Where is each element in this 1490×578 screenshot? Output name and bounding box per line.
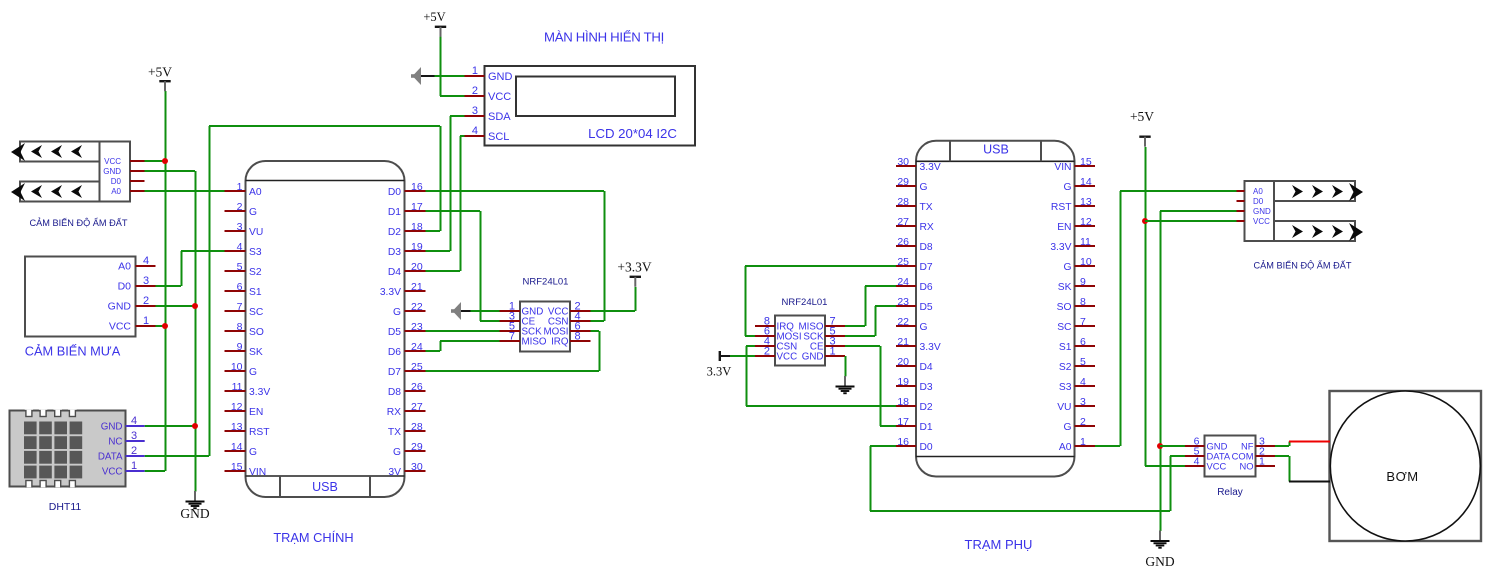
svg-text:S3: S3 bbox=[249, 247, 262, 258]
svg-text:3: 3 bbox=[143, 275, 149, 287]
svg-text:20: 20 bbox=[411, 261, 423, 273]
wire MISO bbox=[440, 340, 500, 342]
pin 1 A0 bbox=[225, 181, 262, 198]
svg-text:27: 27 bbox=[411, 401, 423, 413]
terminal (ground net) bbox=[411, 67, 435, 85]
pin 1 A0 bbox=[1059, 436, 1095, 453]
wire D0 to CSN vertical bbox=[604, 191, 606, 321]
svg-text:S1: S1 bbox=[249, 287, 262, 298]
svg-text:SCL: SCL bbox=[488, 131, 509, 143]
pin 21 3.3V bbox=[896, 336, 941, 353]
svg-text:RST: RST bbox=[1051, 202, 1072, 213]
svg-text:TRẠM PHỤ: TRẠM PHỤ bbox=[965, 537, 1033, 552]
svg-text:NO: NO bbox=[1239, 460, 1253, 471]
wire relay COM bbox=[1275, 455, 1289, 457]
svg-text:VCC: VCC bbox=[777, 352, 798, 363]
pin 21 3.3V bbox=[380, 281, 426, 298]
wire +5V to relay VCC bbox=[1145, 465, 1185, 467]
svg-text:1: 1 bbox=[1080, 436, 1086, 448]
MCU U2 Arduino Nano (TRẠM PHỤ) bbox=[916, 141, 1075, 477]
svg-text:MISO: MISO bbox=[522, 337, 547, 348]
svg-text:24: 24 bbox=[411, 341, 423, 353]
pin 3 VU bbox=[1057, 396, 1095, 413]
svg-text:S1: S1 bbox=[1059, 342, 1072, 353]
svg-text:26: 26 bbox=[411, 381, 423, 393]
wire CSN bbox=[746, 345, 755, 347]
svg-text:9: 9 bbox=[237, 341, 243, 353]
wire DATA to D2 horizontal bbox=[209, 125, 440, 127]
svg-text:4: 4 bbox=[131, 415, 137, 427]
pin 5 S2 bbox=[225, 261, 262, 278]
svg-text:14: 14 bbox=[231, 441, 243, 453]
junction soil VCC / +5V bbox=[162, 158, 168, 164]
svg-text:1: 1 bbox=[1259, 456, 1265, 468]
relay module Relay bbox=[1185, 436, 1275, 477]
terminal (ground net) bbox=[451, 302, 471, 320]
wire relay DATA drop bbox=[1170, 456, 1172, 511]
wire NRF VCC to 3.3V bbox=[730, 355, 755, 357]
wire relay NF bbox=[1275, 445, 1289, 447]
svg-text:3.3V: 3.3V bbox=[707, 365, 732, 379]
svg-text:D8: D8 bbox=[388, 387, 401, 398]
svg-text:17: 17 bbox=[897, 416, 909, 428]
wire CE bbox=[845, 345, 880, 347]
pin 17 D1 bbox=[896, 416, 933, 433]
wire NF to pump (red) bbox=[1289, 441, 1330, 443]
wire DHT DATA bbox=[145, 455, 209, 457]
svg-text:19: 19 bbox=[897, 376, 909, 388]
wire D5 bbox=[875, 305, 896, 307]
wire sensor GND bbox=[1160, 210, 1237, 212]
pin 27 RX bbox=[896, 216, 934, 233]
svg-text:18: 18 bbox=[897, 396, 909, 408]
pin 10 G bbox=[225, 361, 258, 378]
svg-text:1: 1 bbox=[237, 181, 243, 193]
svg-text:1: 1 bbox=[830, 346, 836, 358]
pin 19 D3 bbox=[896, 376, 933, 393]
svg-text:3: 3 bbox=[237, 221, 243, 233]
wire NRF GND drop bbox=[845, 356, 847, 376]
svg-text:A0: A0 bbox=[118, 261, 131, 273]
pin 12 EN bbox=[225, 401, 264, 418]
svg-text:19: 19 bbox=[411, 241, 423, 253]
svg-text:3.3V: 3.3V bbox=[249, 387, 270, 398]
pin 2 G bbox=[1063, 416, 1095, 433]
wire GND vertical right bbox=[1160, 211, 1162, 531]
svg-text:13: 13 bbox=[231, 421, 243, 433]
svg-text:VU: VU bbox=[1057, 402, 1071, 413]
svg-text:D1: D1 bbox=[920, 422, 933, 433]
pin 26 D8 bbox=[896, 236, 933, 253]
svg-text:D2: D2 bbox=[920, 402, 933, 413]
wire NRF VCC bbox=[591, 310, 636, 312]
svg-text:A0: A0 bbox=[1059, 442, 1072, 453]
svg-text:D6: D6 bbox=[920, 282, 933, 293]
svg-text:TRẠM CHÍNH: TRẠM CHÍNH bbox=[273, 530, 353, 545]
wire CE bbox=[480, 320, 500, 322]
svg-text:D2: D2 bbox=[388, 227, 401, 238]
svg-text:GND: GND bbox=[488, 71, 513, 83]
svg-text:D4: D4 bbox=[920, 362, 933, 373]
svg-text:12: 12 bbox=[1080, 216, 1092, 228]
pin 7 SC bbox=[225, 301, 264, 318]
svg-text:7: 7 bbox=[509, 331, 515, 343]
pin 23 D5 bbox=[388, 321, 426, 338]
pin 28 TX bbox=[388, 421, 426, 438]
svg-text:5: 5 bbox=[1080, 356, 1086, 368]
wire SDA vertical bbox=[450, 116, 452, 251]
svg-text:+5V: +5V bbox=[148, 65, 172, 80]
pin 3 VU bbox=[225, 221, 264, 238]
pin 11 3.3V bbox=[225, 381, 271, 398]
wire +5V vertical bbox=[165, 91, 167, 471]
wire D1 to CE vertical bbox=[480, 211, 482, 321]
wire CE to D1 vertical bbox=[880, 346, 882, 426]
svg-text:10: 10 bbox=[231, 361, 243, 373]
wire sensor VCC bbox=[1145, 220, 1237, 222]
svg-text:4: 4 bbox=[472, 125, 478, 137]
svg-text:DATA: DATA bbox=[98, 451, 123, 462]
pin 20 D4 bbox=[388, 261, 426, 278]
svg-text:8: 8 bbox=[1080, 296, 1086, 308]
svg-text:+5V: +5V bbox=[423, 10, 445, 24]
svg-text:29: 29 bbox=[897, 176, 909, 188]
svg-text:G: G bbox=[249, 447, 257, 458]
pin 22 G bbox=[393, 301, 426, 318]
svg-text:3: 3 bbox=[131, 430, 137, 442]
svg-text:3.3V: 3.3V bbox=[920, 342, 941, 353]
wire D3 to SDA bbox=[426, 250, 451, 252]
pin 9 SK bbox=[225, 341, 263, 358]
pin 27 RX bbox=[387, 401, 426, 418]
wire D0 riser bbox=[870, 446, 872, 511]
svg-text:D8: D8 bbox=[920, 242, 933, 253]
ground bbox=[1145, 531, 1174, 570]
wire rain VCC bbox=[156, 325, 166, 327]
pin 6 S1 bbox=[225, 281, 262, 298]
pin 6 S1 bbox=[1059, 336, 1095, 353]
svg-text:3: 3 bbox=[472, 105, 478, 117]
wire rain D0 bbox=[156, 285, 182, 287]
wire LCD SDA bbox=[450, 115, 465, 117]
svg-text:24: 24 bbox=[897, 276, 909, 288]
wire +5V vertical right bbox=[1145, 147, 1147, 466]
wire D4 to SCL bbox=[426, 270, 461, 272]
svg-text:D1: D1 bbox=[388, 207, 401, 218]
pin 30 3V bbox=[388, 461, 425, 478]
junction relay GND bbox=[1157, 443, 1163, 449]
wire DHT GND bbox=[145, 425, 195, 427]
svg-text:2: 2 bbox=[237, 201, 243, 213]
junction rain GND bbox=[192, 303, 198, 309]
pin 4 S3 bbox=[1059, 376, 1095, 393]
wire D6 to MISO riser bbox=[440, 341, 442, 351]
ground bbox=[180, 491, 209, 521]
pin 24 D6 bbox=[388, 341, 426, 358]
svg-text:1: 1 bbox=[131, 460, 137, 472]
svg-text:G: G bbox=[249, 367, 257, 378]
wire D1 bbox=[426, 210, 481, 212]
soil moisture sensor (CẢM BIẾN ĐỘ ẨM ĐẤT) right bbox=[1237, 181, 1364, 241]
svg-text:MÀN HÌNH HIỂN THỊ: MÀN HÌNH HIỂN THỊ bbox=[544, 30, 664, 45]
pin 19 D3 bbox=[388, 241, 426, 258]
svg-text:S2: S2 bbox=[1059, 362, 1072, 373]
pin 11 3.3V bbox=[1050, 236, 1095, 253]
MCU U1 Arduino Nano (TRẠM CHÍNH) bbox=[246, 161, 405, 497]
svg-text:RX: RX bbox=[920, 222, 934, 233]
svg-text:G: G bbox=[1063, 262, 1071, 273]
svg-text:27: 27 bbox=[897, 216, 909, 228]
svg-text:13: 13 bbox=[1080, 196, 1092, 208]
pin 14 G bbox=[1063, 176, 1095, 193]
svg-text:USB: USB bbox=[983, 143, 1009, 157]
svg-text:SDA: SDA bbox=[488, 111, 511, 123]
wire relay DATA bbox=[1170, 455, 1185, 457]
svg-text:6: 6 bbox=[237, 281, 243, 293]
svg-text:NC: NC bbox=[108, 436, 122, 447]
svg-text:G: G bbox=[249, 207, 257, 218]
wire SCL vertical bbox=[460, 136, 462, 271]
svg-text:SK: SK bbox=[249, 347, 263, 358]
wire DATA to D0 horizontal bbox=[870, 510, 1170, 512]
RF module NRF24L01 (left) bbox=[500, 301, 591, 352]
svg-text:D0: D0 bbox=[388, 187, 401, 198]
wire NRF GND from terminal bbox=[471, 310, 500, 312]
svg-text:9: 9 bbox=[1080, 276, 1086, 288]
svg-text:22: 22 bbox=[411, 301, 423, 313]
svg-text:GND: GND bbox=[1145, 554, 1174, 569]
svg-text:4: 4 bbox=[1194, 456, 1200, 468]
wire MOSI bbox=[591, 330, 600, 332]
svg-text:+3.3V: +3.3V bbox=[617, 260, 651, 275]
svg-text:USB: USB bbox=[312, 480, 338, 494]
svg-text:12: 12 bbox=[231, 401, 243, 413]
svg-text:11: 11 bbox=[1080, 236, 1091, 248]
wire D1 bbox=[880, 425, 896, 427]
svg-text:EN: EN bbox=[249, 407, 263, 418]
wire LCD GND bbox=[434, 75, 465, 77]
svg-text:25: 25 bbox=[897, 256, 909, 268]
svg-text:VCC: VCC bbox=[488, 91, 511, 103]
svg-text:15: 15 bbox=[1080, 156, 1092, 168]
pin 20 D4 bbox=[896, 356, 933, 373]
pump BƠM bbox=[1330, 391, 1482, 541]
svg-text:D0: D0 bbox=[920, 442, 933, 453]
svg-text:8: 8 bbox=[575, 331, 581, 343]
svg-text:1: 1 bbox=[143, 315, 149, 327]
pin 24 D6 bbox=[896, 276, 933, 293]
wire rain D0 to S3 bbox=[181, 250, 225, 252]
svg-text:G: G bbox=[920, 182, 928, 193]
svg-text:4: 4 bbox=[237, 241, 243, 253]
svg-text:VCC: VCC bbox=[102, 466, 123, 477]
svg-text:30: 30 bbox=[897, 156, 909, 168]
pin 23 D5 bbox=[896, 296, 933, 313]
soil moisture sensor (CẢM BIẾN ĐỘ ẨM ĐẤT) left bbox=[11, 142, 145, 202]
pin 30 3.3V bbox=[896, 156, 941, 173]
svg-text:21: 21 bbox=[897, 336, 909, 348]
svg-text:4: 4 bbox=[143, 255, 149, 267]
wire D7 bbox=[426, 370, 600, 372]
svg-text:20: 20 bbox=[897, 356, 909, 368]
svg-text:DHT11: DHT11 bbox=[49, 501, 82, 513]
svg-text:D0: D0 bbox=[1253, 197, 1264, 206]
wire D6 bbox=[865, 285, 896, 287]
svg-text:D3: D3 bbox=[388, 247, 401, 258]
pin 13 RST bbox=[1051, 196, 1095, 213]
wire D2 bbox=[746, 405, 896, 407]
svg-text:2: 2 bbox=[143, 295, 149, 307]
wire soil A0 to pin A0 bbox=[145, 190, 225, 192]
svg-text:SC: SC bbox=[249, 307, 264, 318]
pin 15 VIN bbox=[225, 461, 267, 478]
svg-text:25: 25 bbox=[411, 361, 423, 373]
svg-text:3: 3 bbox=[1080, 396, 1086, 408]
power +5V bbox=[148, 65, 172, 92]
svg-text:VIN: VIN bbox=[249, 467, 266, 478]
wire D5 to SCK bbox=[426, 330, 500, 332]
svg-text:5: 5 bbox=[237, 261, 243, 273]
wire D2 stub to riser bbox=[426, 230, 441, 232]
svg-text:23: 23 bbox=[897, 296, 909, 308]
svg-text:21: 21 bbox=[411, 281, 423, 293]
svg-text:SK: SK bbox=[1058, 282, 1072, 293]
power terminal 3.3V bbox=[707, 351, 732, 379]
pin 15 VIN bbox=[1054, 156, 1095, 173]
svg-text:23: 23 bbox=[411, 321, 423, 333]
svg-text:2: 2 bbox=[764, 346, 770, 358]
sensor DHT11 bbox=[10, 407, 145, 490]
svg-text:Relay: Relay bbox=[1217, 487, 1243, 498]
pin 9 SK bbox=[1058, 276, 1095, 293]
wire COM to pump (black) bbox=[1289, 481, 1330, 483]
svg-text:GND: GND bbox=[180, 506, 209, 521]
svg-text:D0: D0 bbox=[111, 177, 122, 186]
pin 14 G bbox=[225, 441, 258, 458]
junction rain VCC / +5V bbox=[162, 323, 168, 329]
svg-text:D3: D3 bbox=[920, 382, 933, 393]
svg-text:3V: 3V bbox=[388, 467, 401, 478]
svg-text:2: 2 bbox=[1080, 416, 1086, 428]
svg-text:GND: GND bbox=[1253, 207, 1271, 216]
svg-text:A0: A0 bbox=[249, 187, 262, 198]
wire D7 to MOSI vertical bbox=[745, 266, 747, 336]
svg-text:15: 15 bbox=[231, 461, 243, 473]
svg-text:D7: D7 bbox=[388, 367, 401, 378]
pin 22 G bbox=[896, 316, 928, 333]
svg-text:D0: D0 bbox=[118, 281, 132, 293]
pin 12 EN bbox=[1057, 216, 1095, 233]
svg-text:EN: EN bbox=[1057, 222, 1071, 233]
svg-text:16: 16 bbox=[411, 181, 423, 193]
svg-text:S2: S2 bbox=[249, 267, 262, 278]
wire MISO to D6 vertical bbox=[865, 286, 867, 326]
wire D0 bbox=[870, 445, 896, 447]
svg-text:7: 7 bbox=[237, 301, 243, 313]
wire D7 bbox=[745, 265, 896, 267]
svg-text:3.3V: 3.3V bbox=[1050, 242, 1071, 253]
svg-text:TX: TX bbox=[920, 202, 933, 213]
wire LCD SCL bbox=[460, 135, 465, 137]
svg-text:GND: GND bbox=[108, 301, 132, 313]
pin 16 D0 bbox=[388, 181, 426, 198]
svg-text:G: G bbox=[393, 307, 401, 318]
wire D7 to MOSI riser bbox=[599, 331, 601, 371]
pin 8 SO bbox=[225, 321, 264, 338]
wire D0 bbox=[426, 190, 605, 192]
wire relay GND bbox=[1160, 445, 1185, 447]
pin 28 TX bbox=[896, 196, 933, 213]
svg-text:18: 18 bbox=[411, 221, 423, 233]
svg-text:16: 16 bbox=[897, 436, 909, 448]
svg-text:BƠM: BƠM bbox=[1386, 469, 1418, 484]
svg-text:17: 17 bbox=[411, 201, 423, 213]
svg-text:CẢM BIẾN ĐỘ ẨM ĐẤT: CẢM BIẾN ĐỘ ẨM ĐẤT bbox=[1253, 260, 1351, 271]
svg-text:CẢM BIẾN MƯA: CẢM BIẾN MƯA bbox=[25, 344, 121, 359]
pin 7 SC bbox=[1057, 316, 1095, 333]
svg-text:2: 2 bbox=[131, 445, 137, 457]
pin 8 SO bbox=[1057, 296, 1095, 313]
wire DHT VCC to +5V bbox=[145, 470, 165, 472]
wire rain D0 riser bbox=[181, 251, 183, 286]
svg-text:A0: A0 bbox=[1253, 187, 1263, 196]
svg-text:VIN: VIN bbox=[1054, 162, 1071, 173]
svg-text:GND: GND bbox=[101, 421, 123, 432]
wire GND vertical bbox=[195, 171, 197, 492]
pin 17 D1 bbox=[388, 201, 426, 218]
wire CSN to D2 vertical bbox=[746, 346, 748, 406]
svg-text:VCC: VCC bbox=[104, 157, 121, 166]
junction sensor VCC / +5V bbox=[1142, 218, 1148, 224]
svg-text:D6: D6 bbox=[388, 347, 401, 358]
svg-text:RX: RX bbox=[387, 407, 401, 418]
svg-text:28: 28 bbox=[411, 421, 423, 433]
pin 25 D7 bbox=[896, 256, 933, 273]
wire CSN bbox=[591, 320, 605, 322]
pin 18 D2 bbox=[388, 221, 426, 238]
svg-text:D5: D5 bbox=[388, 327, 401, 338]
wire soil GND bbox=[145, 170, 196, 172]
svg-text:G: G bbox=[1063, 422, 1071, 433]
svg-text:NRF24L01: NRF24L01 bbox=[782, 297, 828, 308]
svg-text:RST: RST bbox=[249, 427, 270, 438]
svg-text:3.3V: 3.3V bbox=[920, 162, 941, 173]
svg-text:IRQ: IRQ bbox=[551, 337, 569, 348]
power +5V bbox=[423, 10, 446, 37]
ground bbox=[836, 376, 855, 393]
wire MOSI bbox=[745, 335, 755, 337]
svg-text:+5V: +5V bbox=[1130, 109, 1154, 124]
svg-text:SC: SC bbox=[1057, 322, 1072, 333]
wire NRF VCC to +3.3V bbox=[635, 287, 637, 311]
pin 10 G bbox=[1063, 256, 1095, 273]
LCD module LCD 20*04 I2C bbox=[465, 65, 696, 146]
wire D6 bbox=[426, 350, 441, 352]
svg-text:SO: SO bbox=[1057, 302, 1072, 313]
svg-text:VU: VU bbox=[249, 227, 263, 238]
pin 16 D0 bbox=[896, 436, 933, 453]
svg-text:28: 28 bbox=[897, 196, 909, 208]
svg-text:22: 22 bbox=[897, 316, 909, 328]
svg-text:6: 6 bbox=[1080, 336, 1086, 348]
wire DATA to D2 drop bbox=[440, 126, 442, 231]
wire +5V to LCD VCC vertical bbox=[440, 34, 442, 96]
RF module NRF24L01 (right) bbox=[755, 316, 845, 366]
svg-text:NRF24L01: NRF24L01 bbox=[523, 277, 569, 288]
pin 29 G bbox=[896, 176, 928, 193]
svg-text:GND: GND bbox=[103, 167, 121, 176]
svg-text:TX: TX bbox=[388, 427, 401, 438]
